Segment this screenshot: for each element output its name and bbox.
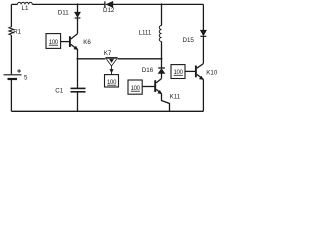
wire K11 emitter down with jog	[162, 94, 170, 112]
wire top right segment	[113, 3, 203, 5]
wire box to K10 base	[185, 70, 196, 72]
svg-text:D15: D15	[183, 37, 195, 44]
wire bottom border	[11, 110, 203, 112]
node junction K6 emitter / K7 wire	[77, 58, 79, 60]
svg-text:K11: K11	[170, 94, 181, 101]
svg-text:D16: D16	[142, 67, 154, 74]
wire box to K11 base	[142, 86, 155, 88]
svg-text:R1: R1	[13, 29, 21, 36]
wire left border lower (battery to bottom)	[10, 80, 12, 112]
transistor K11	[155, 79, 181, 101]
wire top left segment	[11, 3, 17, 5]
wire L111 to junction	[161, 42, 163, 69]
svg-text:D11: D11	[58, 9, 69, 16]
wire to K7	[78, 58, 106, 60]
diode D11	[58, 9, 81, 18]
inductor L1	[18, 2, 33, 4]
transistor K7	[104, 50, 118, 75]
svg-text:5: 5	[24, 75, 28, 82]
wire right border upper (to D15)	[202, 4, 204, 30]
wire left border upper (to R1)	[10, 4, 12, 27]
svg-text:L111: L111	[139, 29, 152, 36]
wire D15 to K10 collector	[202, 36, 204, 63]
battery 5 V	[4, 69, 29, 82]
wire D11 to K6 collector	[77, 18, 79, 34]
node junction top at L111 branch	[161, 3, 163, 5]
svg-text:K7: K7	[104, 50, 112, 57]
resistor R1	[9, 27, 22, 36]
diode D16	[142, 67, 165, 74]
transistor K10	[196, 64, 218, 80]
node junction top at D11 branch	[77, 3, 79, 5]
node junction K7 wire / D16 line	[161, 58, 163, 60]
capacitor C1	[55, 88, 85, 95]
gain box 100 for K11	[128, 80, 142, 94]
wire top middle segment	[32, 3, 105, 5]
gain box 100 for K7	[105, 75, 119, 87]
svg-text:C1: C1	[55, 88, 63, 95]
wire right border lower (K10 emitter to bottom)	[202, 79, 204, 111]
svg-text:D12: D12	[103, 7, 115, 14]
svg-text:K10: K10	[206, 70, 218, 77]
wire K7 to L111 line	[118, 58, 162, 60]
svg-text:L1: L1	[22, 5, 29, 12]
gain box 100 for K10	[171, 65, 185, 79]
wire K6 emitter down	[77, 50, 79, 89]
wire from top to D11	[77, 4, 79, 12]
wire left border middle (R1 to battery)	[10, 35, 12, 74]
transistor K6	[70, 34, 91, 50]
gain box 100 for K6	[46, 34, 61, 49]
wire D16 to K11 collector	[161, 73, 163, 78]
inductor L111	[139, 26, 162, 42]
diode D12	[103, 1, 115, 14]
wire top to L111	[161, 4, 163, 25]
svg-text:K6: K6	[83, 39, 91, 46]
wire box to K6 base	[61, 41, 70, 43]
wire C1 to bottom	[77, 92, 79, 112]
diode D15	[183, 30, 207, 44]
